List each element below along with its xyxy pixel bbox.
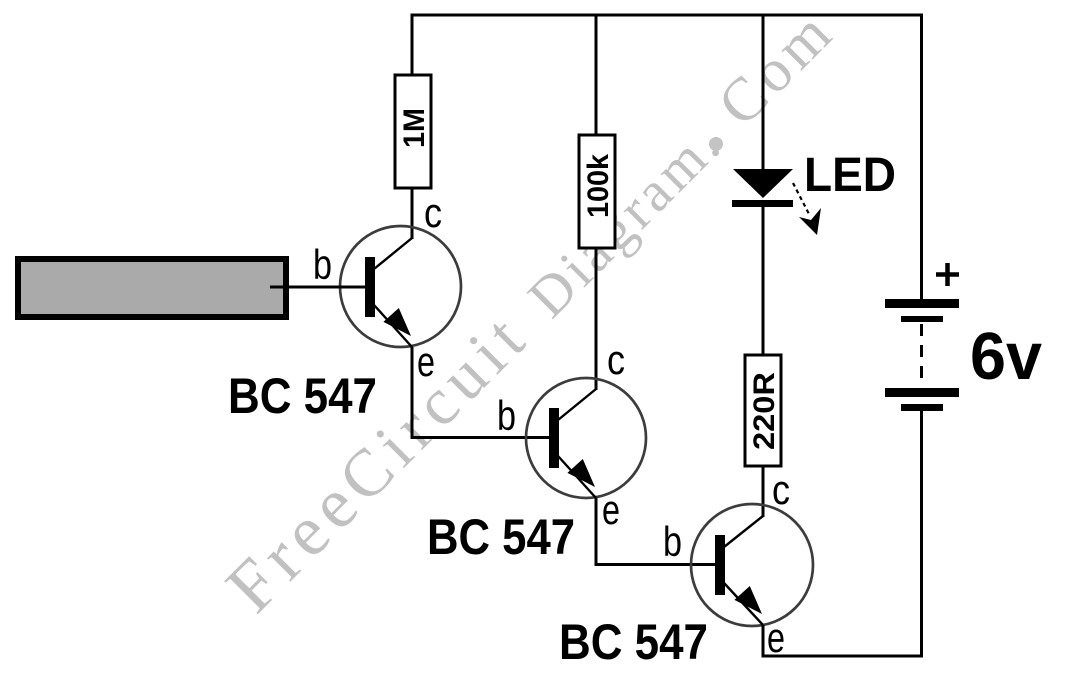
wire: rail to LED anode	[762, 15, 765, 171]
svg-text:6v: 6v	[970, 319, 1042, 394]
wire: battery - to bottom rail	[920, 411, 923, 658]
svg-text:e: e	[602, 486, 620, 533]
wire: rail to R2 top	[595, 15, 598, 136]
svg-text:b: b	[663, 518, 682, 565]
svg-text:BC 547: BC 547	[427, 509, 575, 565]
resistor R2 100k	[579, 135, 615, 248]
watermark period dot	[709, 137, 723, 151]
wire: Q2 emitter to Q3 base	[595, 563, 716, 566]
battery BT1 6v	[885, 263, 959, 411]
svg-text:e: e	[767, 614, 785, 661]
wire: Q2 emitter down	[595, 498, 598, 566]
transistor Q1 BC547	[340, 226, 461, 347]
svg-text:LED: LED	[804, 149, 896, 202]
wire: R2 to Q2 collector	[595, 248, 598, 390]
svg-text:c: c	[772, 466, 790, 513]
wire: LED cathode to R3	[762, 207, 765, 355]
resistor R3 220R	[745, 355, 781, 466]
touch plate	[18, 259, 286, 317]
svg-text:BC 547: BC 547	[228, 368, 377, 424]
wire: rail to battery +	[920, 15, 923, 300]
svg-text:b: b	[497, 392, 516, 439]
wire: top supply rail	[411, 14, 924, 17]
wire: Q1 emitter to Q2 base	[411, 436, 550, 439]
resistor R1 1M	[395, 75, 431, 188]
wire: R3 to Q3 collector	[762, 466, 765, 517]
LED D1	[732, 169, 821, 235]
wire: R1 to Q1 collector	[411, 188, 414, 239]
wire: bottom rail	[762, 655, 924, 658]
wire: Q1 emitter down	[411, 347, 414, 439]
transistor Q3 BC547	[691, 504, 813, 626]
svg-text:c: c	[607, 336, 625, 383]
transistor Q2 BC547	[526, 378, 646, 498]
wire: plate to Q1 base	[270, 286, 365, 289]
wire: rail to R1 top	[411, 15, 414, 75]
svg-text:1M: 1M	[398, 108, 431, 148]
svg-text:100k: 100k	[582, 154, 615, 218]
svg-text:b: b	[313, 241, 332, 288]
wire: Q3 emitter down	[762, 625, 765, 658]
svg-text:BC 547: BC 547	[559, 614, 708, 670]
svg-text:220R: 220R	[748, 372, 781, 450]
svg-text:e: e	[417, 338, 435, 385]
svg-text:c: c	[424, 189, 442, 236]
